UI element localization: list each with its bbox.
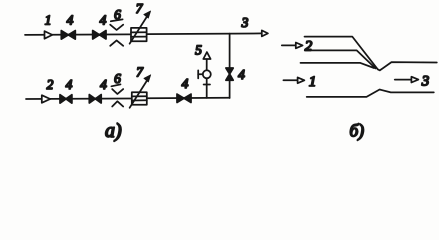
wire top pipe right segment <box>147 32 262 35</box>
svg-text:4: 4 <box>238 67 245 82</box>
label 4 <box>66 77 73 92</box>
valve 4 (bottom line, first) <box>60 95 72 103</box>
label 4 <box>100 12 107 27</box>
flow arrow out 3 <box>395 77 419 83</box>
wire bottom pipe left segment <box>26 98 132 101</box>
flow arrow into channel 2 <box>282 43 303 49</box>
svg-text:а): а) <box>105 120 122 142</box>
svg-text:4: 4 <box>67 12 74 27</box>
svg-text:4: 4 <box>66 77 73 92</box>
svg-text:3: 3 <box>421 74 430 90</box>
valve 4 (bottom line, third) <box>177 94 191 102</box>
flow arrow output 3 <box>262 30 268 36</box>
connector 6 (bottom line) <box>112 89 123 106</box>
label 5 <box>195 43 202 58</box>
svg-text:4: 4 <box>182 76 189 91</box>
label 3 (top output) <box>241 15 249 30</box>
label a) <box>105 120 122 142</box>
svg-text:2: 2 <box>305 39 313 55</box>
wire top pipe left segment <box>25 33 131 36</box>
label 1 <box>309 74 317 90</box>
valve 5 branch <box>198 52 211 98</box>
channel bottom wall <box>307 90 434 97</box>
label b) <box>350 121 365 141</box>
svg-text:7: 7 <box>136 65 144 80</box>
svg-text:б): б) <box>350 121 365 141</box>
label 7 <box>136 65 144 80</box>
valve 4 (top line, first) <box>61 31 75 39</box>
wire bottom pipe right segment <box>147 97 230 100</box>
valve 4 (vertical branch) <box>226 68 233 80</box>
throttle 7 (bottom line) <box>130 75 151 108</box>
label 6 with leader <box>111 71 121 86</box>
connector 6 (top line) <box>110 25 123 46</box>
label 2 <box>305 39 313 55</box>
channel wall C <box>301 63 375 68</box>
flow arrow 1 <box>45 31 53 39</box>
node tee junction top <box>229 34 231 98</box>
label 4 <box>100 77 107 92</box>
label 3 <box>421 74 430 90</box>
label 4 <box>67 12 74 27</box>
svg-text:2: 2 <box>47 77 54 92</box>
label 2 <box>47 77 54 92</box>
channel wall B <box>306 50 376 68</box>
label 4 <box>182 76 189 91</box>
svg-text:1: 1 <box>45 13 52 28</box>
svg-text:4: 4 <box>100 12 107 27</box>
svg-text:1: 1 <box>309 74 317 90</box>
svg-text:5: 5 <box>195 43 202 58</box>
valve 4 (bottom line, second) <box>89 95 101 103</box>
throttle 7 (top line) <box>130 11 151 44</box>
label 6 with leader <box>111 7 123 22</box>
valve 4 (top line, second) <box>93 31 106 40</box>
flow arrow 2 <box>42 95 50 103</box>
channel wall A <box>305 37 437 71</box>
svg-text:7: 7 <box>136 1 144 16</box>
flow arrow into channel 1 <box>283 77 304 83</box>
label 4 <box>238 67 245 82</box>
svg-text:3: 3 <box>241 15 249 30</box>
label 1 <box>45 13 52 28</box>
svg-text:4: 4 <box>100 77 107 92</box>
label 7 <box>136 1 144 16</box>
